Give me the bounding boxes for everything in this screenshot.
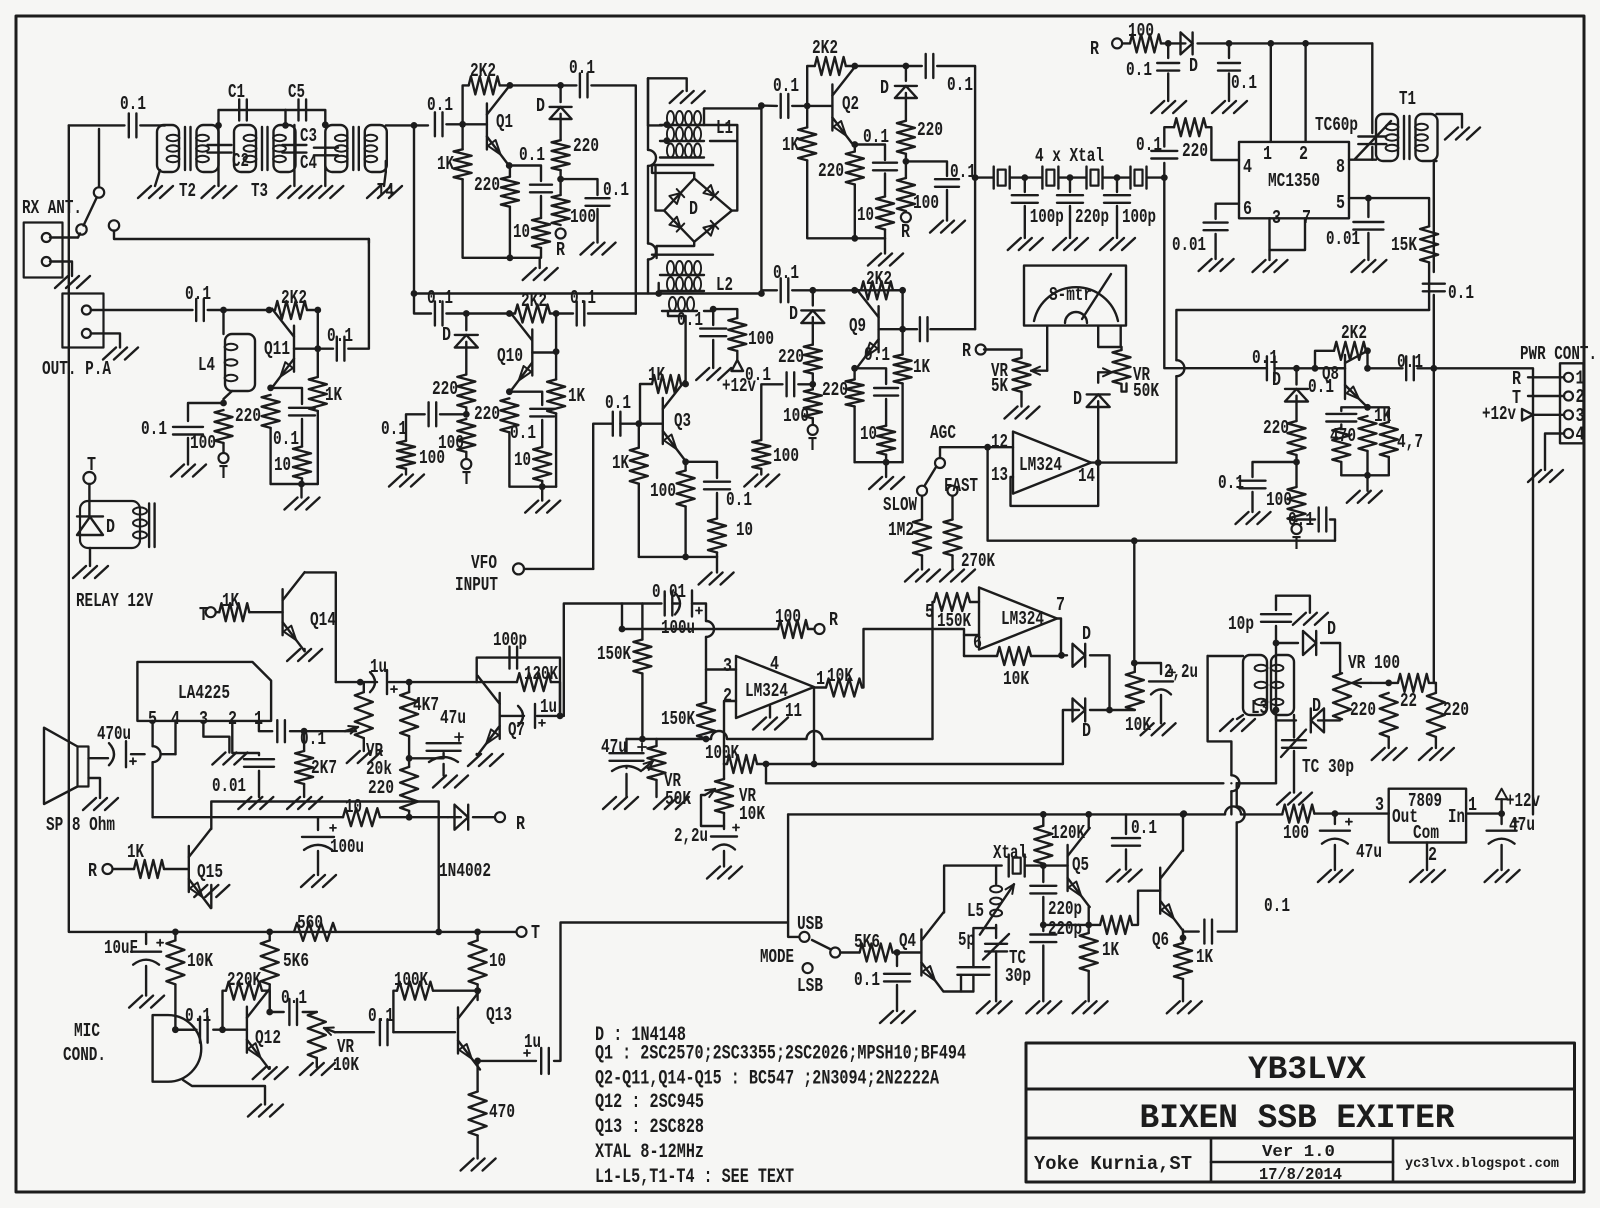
svg-text:1u: 1u <box>524 1031 541 1053</box>
svg-text:0.1: 0.1 <box>1231 72 1257 94</box>
svg-text:D: D <box>789 303 798 325</box>
svg-text:C2: C2 <box>232 150 249 172</box>
svg-text:Q12 : 2SC945: Q12 : 2SC945 <box>595 1091 704 1114</box>
svg-text:2K2: 2K2 <box>470 60 496 82</box>
svg-text:Q13 : 2SC828: Q13 : 2SC828 <box>595 1116 704 1139</box>
svg-text:Q2: Q2 <box>842 93 859 115</box>
svg-text:220: 220 <box>818 160 844 182</box>
svg-text:2K2: 2K2 <box>281 287 307 309</box>
svg-text:USB: USB <box>797 913 823 935</box>
svg-text:XTAL 8-12MHz: XTAL 8-12MHz <box>595 1141 704 1164</box>
svg-text:0.1: 0.1 <box>726 489 752 511</box>
svg-text:10: 10 <box>345 796 362 818</box>
svg-text:S-mtr: S-mtr <box>1049 284 1092 306</box>
svg-text:yc3lvx.blogspot.com: yc3lvx.blogspot.com <box>1405 1156 1559 1172</box>
svg-text:0.1: 0.1 <box>1131 817 1157 839</box>
svg-text:0.1: 0.1 <box>950 161 976 183</box>
svg-text:10: 10 <box>857 204 874 226</box>
svg-text:100: 100 <box>773 445 799 467</box>
svg-text:220: 220 <box>474 174 500 196</box>
svg-text:D: D <box>1082 720 1091 742</box>
svg-text:D: D <box>536 95 545 117</box>
svg-text:1K: 1K <box>1374 405 1391 427</box>
svg-text:1K: 1K <box>568 385 585 407</box>
svg-text:T3: T3 <box>251 180 268 202</box>
svg-text:47u: 47u <box>601 736 627 758</box>
svg-text:LM324: LM324 <box>1019 454 1062 476</box>
svg-text:0.1: 0.1 <box>185 1005 211 1027</box>
svg-text:5K6: 5K6 <box>283 950 309 972</box>
svg-text:100: 100 <box>650 480 676 502</box>
svg-text:0.1: 0.1 <box>141 418 167 440</box>
svg-text:220: 220 <box>822 379 848 401</box>
svg-text:D: D <box>1082 623 1091 645</box>
svg-text:0.1: 0.1 <box>368 1005 394 1027</box>
svg-text:1M2: 1M2 <box>888 519 914 541</box>
svg-text:10K: 10K <box>1125 714 1151 736</box>
svg-text:L3: L3 <box>1251 697 1268 719</box>
svg-text:4,7: 4,7 <box>1397 431 1423 453</box>
svg-text:7: 7 <box>1302 207 1311 229</box>
svg-text:2,2u: 2,2u <box>1164 661 1198 683</box>
svg-text:0.1: 0.1 <box>773 262 799 284</box>
svg-text:220: 220 <box>474 403 500 425</box>
svg-text:150K: 150K <box>597 643 631 665</box>
svg-text:5K6: 5K6 <box>854 931 880 953</box>
svg-text:100: 100 <box>783 405 809 427</box>
svg-text:100: 100 <box>775 606 801 628</box>
svg-text:10K: 10K <box>739 803 765 825</box>
svg-text:50K: 50K <box>1133 380 1159 402</box>
svg-text:1: 1 <box>816 668 825 690</box>
svg-text:MODE: MODE <box>760 946 794 968</box>
svg-text:0.1: 0.1 <box>327 325 353 347</box>
svg-text:L2: L2 <box>716 274 733 296</box>
svg-text:Q10: Q10 <box>497 345 523 367</box>
svg-text:4: 4 <box>770 653 779 675</box>
svg-text:220: 220 <box>368 777 394 799</box>
svg-text:220: 220 <box>235 405 261 427</box>
svg-text:D: D <box>689 198 698 220</box>
svg-text:10K: 10K <box>827 665 853 687</box>
svg-text:100p: 100p <box>1030 206 1064 228</box>
svg-text:1N4002: 1N4002 <box>439 860 491 882</box>
svg-text:T4: T4 <box>377 180 394 202</box>
svg-text:COND.: COND. <box>63 1044 106 1066</box>
svg-text:220p: 220p <box>1048 898 1082 920</box>
svg-text:220: 220 <box>1443 699 1469 721</box>
svg-text:1u: 1u <box>540 696 557 718</box>
svg-text:100: 100 <box>190 432 216 454</box>
svg-text:BIXEN SSB EXITER: BIXEN SSB EXITER <box>1140 1100 1456 1138</box>
svg-text:Q14: Q14 <box>310 609 336 631</box>
svg-text:0.1: 0.1 <box>300 728 326 750</box>
svg-text:0.1: 0.1 <box>569 57 595 79</box>
svg-text:100: 100 <box>419 447 445 469</box>
svg-text:0.1: 0.1 <box>1264 895 1290 917</box>
svg-text:100: 100 <box>748 328 774 350</box>
svg-text:2K2: 2K2 <box>812 37 838 59</box>
svg-text:0.1: 0.1 <box>603 179 629 201</box>
svg-text:Q9: Q9 <box>849 315 866 337</box>
svg-text:14: 14 <box>1078 465 1095 487</box>
svg-text:100u: 100u <box>330 836 364 858</box>
svg-text:10: 10 <box>514 449 531 471</box>
svg-text:0.1: 0.1 <box>1288 509 1314 531</box>
svg-text:L5: L5 <box>967 900 984 922</box>
svg-text:3: 3 <box>1272 207 1281 229</box>
svg-text:0.1: 0.1 <box>1308 376 1334 398</box>
svg-text:2: 2 <box>1428 844 1437 866</box>
svg-text:100: 100 <box>913 192 939 214</box>
svg-text:0.1: 0.1 <box>185 283 211 305</box>
svg-text:T: T <box>808 434 817 456</box>
svg-text:1K: 1K <box>127 841 144 863</box>
svg-text:0.1: 0.1 <box>519 144 545 166</box>
svg-text:15K: 15K <box>1391 234 1417 256</box>
svg-text:0.1: 0.1 <box>570 287 596 309</box>
svg-text:6: 6 <box>1243 198 1252 220</box>
svg-text:10: 10 <box>274 454 291 476</box>
svg-text:AGC: AGC <box>930 422 956 444</box>
svg-text:0.1: 0.1 <box>281 987 307 1009</box>
svg-text:10K: 10K <box>1003 668 1029 690</box>
svg-text:R: R <box>829 609 838 631</box>
svg-text:TC 30p: TC 30p <box>1302 756 1354 778</box>
svg-text:4K7: 4K7 <box>413 694 439 716</box>
svg-text:Yoke Kurnia,ST: Yoke Kurnia,ST <box>1034 1153 1192 1175</box>
svg-text:220: 220 <box>1263 417 1289 439</box>
svg-text:0.1: 0.1 <box>864 344 890 366</box>
svg-text:D: D <box>106 516 115 538</box>
svg-text:470: 470 <box>1330 425 1356 447</box>
svg-text:+12v: +12v <box>1506 790 1540 812</box>
svg-text:2,2u: 2,2u <box>674 825 708 847</box>
svg-text:L1: L1 <box>716 117 733 139</box>
svg-text:1: 1 <box>254 708 263 730</box>
svg-text:Q11: Q11 <box>264 338 290 360</box>
svg-text:R: R <box>556 239 565 261</box>
svg-text:10uF: 10uF <box>104 937 138 959</box>
svg-text:10: 10 <box>513 221 530 243</box>
svg-text:5: 5 <box>1336 192 1345 214</box>
svg-text:D: D <box>1327 618 1336 640</box>
svg-text:1K: 1K <box>325 384 342 406</box>
svg-text:C1: C1 <box>228 81 245 103</box>
svg-text:R: R <box>516 813 525 835</box>
svg-text:Q5: Q5 <box>1072 854 1089 876</box>
svg-text:L4: L4 <box>198 354 215 376</box>
svg-text:47u: 47u <box>1356 841 1382 863</box>
svg-text:100: 100 <box>1283 822 1309 844</box>
svg-text:T: T <box>462 468 471 490</box>
svg-text:0.1: 0.1 <box>773 75 799 97</box>
svg-text:In: In <box>1448 806 1465 828</box>
svg-text:150K: 150K <box>937 610 971 632</box>
svg-text:0.1: 0.1 <box>1126 59 1152 81</box>
svg-text:0.1: 0.1 <box>427 94 453 116</box>
svg-text:C3: C3 <box>300 125 317 147</box>
svg-text:0.01: 0.01 <box>212 775 246 797</box>
svg-text:LA4225: LA4225 <box>178 682 230 704</box>
svg-text:1: 1 <box>1263 143 1272 165</box>
svg-text:R: R <box>88 860 97 882</box>
svg-text:6: 6 <box>973 632 982 654</box>
svg-text:11: 11 <box>785 700 802 722</box>
svg-text:Com: Com <box>1413 822 1439 844</box>
svg-text:1K: 1K <box>1102 939 1119 961</box>
svg-text:+12v: +12v <box>1482 403 1516 425</box>
svg-text:+12v: +12v <box>722 375 756 397</box>
svg-text:0.1: 0.1 <box>605 392 631 414</box>
svg-text:SLOW: SLOW <box>883 494 917 516</box>
svg-text:50K: 50K <box>665 788 691 810</box>
svg-text:0.1: 0.1 <box>381 418 407 440</box>
svg-text:30p: 30p <box>1005 965 1031 987</box>
svg-text:220K: 220K <box>227 969 261 991</box>
svg-text:1K: 1K <box>648 364 665 386</box>
svg-text:Q15: Q15 <box>197 861 223 883</box>
svg-text:0.1: 0.1 <box>120 93 146 115</box>
svg-text:VFO: VFO <box>471 552 497 574</box>
svg-text:100K: 100K <box>394 969 428 991</box>
svg-text:3: 3 <box>723 655 732 677</box>
svg-text:RELAY 12V: RELAY 12V <box>76 590 153 612</box>
svg-text:T: T <box>199 604 208 626</box>
svg-text:4 x Xtal: 4 x Xtal <box>1035 145 1104 167</box>
svg-text:1: 1 <box>1468 794 1477 816</box>
svg-text:Q1 : 2SC2570;2SC3355;2SC2026;M: Q1 : 2SC2570;2SC3355;2SC2026;MPSH10;BF49… <box>595 1043 966 1066</box>
svg-text:C4: C4 <box>300 152 317 174</box>
svg-text:1K: 1K <box>437 153 454 175</box>
svg-text:T: T <box>87 454 96 476</box>
svg-text:L1-L5,T1-T4 : SEE TEXT: L1-L5,T1-T4 : SEE TEXT <box>595 1166 794 1189</box>
svg-text:TC60p: TC60p <box>1315 114 1358 136</box>
svg-text:10K: 10K <box>187 950 213 972</box>
svg-text:47u: 47u <box>440 707 466 729</box>
svg-text:150K: 150K <box>661 708 695 730</box>
svg-text:Q4: Q4 <box>899 930 916 952</box>
svg-text:Q3: Q3 <box>674 410 691 432</box>
svg-text:1u: 1u <box>370 656 387 678</box>
svg-text:D: D <box>442 324 451 346</box>
svg-text:0.1: 0.1 <box>427 287 453 309</box>
svg-text:220: 220 <box>573 135 599 157</box>
svg-text:0.1: 0.1 <box>1218 472 1244 494</box>
svg-text:5p: 5p <box>958 929 975 951</box>
svg-text:0.1: 0.1 <box>1252 347 1278 369</box>
svg-text:12: 12 <box>991 431 1008 453</box>
svg-text:Q6: Q6 <box>1152 929 1169 951</box>
svg-text:0.01: 0.01 <box>1326 228 1360 250</box>
svg-text:120K: 120K <box>524 663 558 685</box>
svg-text:OUT. P.A: OUT. P.A <box>42 358 111 380</box>
svg-text:Q7: Q7 <box>508 719 525 741</box>
svg-text:10: 10 <box>489 950 506 972</box>
svg-text:D: D <box>1073 388 1082 410</box>
svg-text:VR 100: VR 100 <box>1348 652 1400 674</box>
svg-text:Q12: Q12 <box>255 1027 281 1049</box>
svg-text:Q2-Q11,Q14-Q15 : BC547 ;2N3094: Q2-Q11,Q14-Q15 : BC547 ;2N3094;2N2222A <box>595 1068 939 1091</box>
svg-text:T1: T1 <box>1399 88 1416 110</box>
svg-text:470u: 470u <box>97 723 131 745</box>
svg-text:2: 2 <box>228 708 237 730</box>
svg-text:10: 10 <box>860 423 877 445</box>
svg-text:22: 22 <box>1400 690 1417 712</box>
svg-text:T: T <box>219 462 228 484</box>
svg-text:100u: 100u <box>661 617 695 639</box>
svg-text:8: 8 <box>1336 156 1345 178</box>
svg-text:17/8/2014: 17/8/2014 <box>1259 1166 1342 1185</box>
svg-text:INPUT: INPUT <box>455 574 498 596</box>
svg-text:LM324: LM324 <box>745 680 788 702</box>
svg-text:120K: 120K <box>1051 822 1085 844</box>
svg-text:1K: 1K <box>913 356 930 378</box>
svg-text:5: 5 <box>925 601 934 623</box>
svg-text:Xtal: Xtal <box>993 842 1027 864</box>
svg-text:0.01: 0.01 <box>652 581 686 603</box>
svg-text:3: 3 <box>1375 794 1384 816</box>
svg-text:0.1: 0.1 <box>273 428 299 450</box>
svg-text:PWR CONT.: PWR CONT. <box>1520 343 1597 365</box>
svg-text:560: 560 <box>297 912 323 934</box>
svg-text:D: D <box>1312 695 1321 717</box>
svg-text:0.1: 0.1 <box>677 309 703 331</box>
svg-text:LSB: LSB <box>797 975 823 997</box>
svg-text:R: R <box>901 221 910 243</box>
svg-text:0.1: 0.1 <box>854 969 880 991</box>
svg-text:1K: 1K <box>782 134 799 156</box>
svg-text:MC1350: MC1350 <box>1268 170 1320 192</box>
svg-text:5K: 5K <box>991 375 1008 397</box>
svg-text:0.1: 0.1 <box>510 422 536 444</box>
svg-text:4: 4 <box>171 708 180 730</box>
svg-text:100p: 100p <box>1122 206 1156 228</box>
svg-text:D: D <box>880 77 889 99</box>
svg-text:470: 470 <box>489 1101 515 1123</box>
svg-text:0.01: 0.01 <box>1172 234 1206 256</box>
svg-text:100K: 100K <box>705 742 739 764</box>
svg-text:RX ANT.: RX ANT. <box>22 197 82 219</box>
svg-text:Q13: Q13 <box>486 1004 512 1026</box>
svg-text:100: 100 <box>570 206 596 228</box>
svg-text:0.1: 0.1 <box>1448 282 1474 304</box>
svg-text:C5: C5 <box>288 81 305 103</box>
svg-text:10p: 10p <box>1228 613 1254 635</box>
svg-text:T: T <box>531 922 540 944</box>
svg-text:10K: 10K <box>333 1054 359 1076</box>
svg-text:4: 4 <box>1576 424 1585 446</box>
svg-text:1K: 1K <box>612 452 629 474</box>
svg-text:47u: 47u <box>1509 814 1535 836</box>
svg-text:R: R <box>962 340 971 362</box>
svg-text:Ver 1.0: Ver 1.0 <box>1262 1143 1335 1162</box>
svg-text:LM324: LM324 <box>1001 608 1044 630</box>
svg-text:4: 4 <box>1243 156 1252 178</box>
svg-text:T: T <box>1292 533 1301 555</box>
svg-text:0.1: 0.1 <box>1136 134 1162 156</box>
svg-text:Q1: Q1 <box>496 111 513 133</box>
svg-text:SP 8 Ohm: SP 8 Ohm <box>46 814 115 836</box>
svg-text:1K: 1K <box>1196 946 1213 968</box>
svg-text:2K2: 2K2 <box>1341 322 1367 344</box>
svg-text:0.1: 0.1 <box>863 126 889 148</box>
svg-text:220: 220 <box>917 119 943 141</box>
svg-text:220: 220 <box>778 346 804 368</box>
svg-text:FAST: FAST <box>944 475 978 497</box>
svg-text:3: 3 <box>199 708 208 730</box>
svg-text:2: 2 <box>1299 143 1308 165</box>
svg-text:YB3LVX: YB3LVX <box>1248 1051 1367 1088</box>
svg-text:2K2: 2K2 <box>521 290 547 312</box>
svg-text:10: 10 <box>736 519 753 541</box>
svg-text:13: 13 <box>991 464 1008 486</box>
svg-text:5: 5 <box>148 708 157 730</box>
svg-text:220p: 220p <box>1048 918 1082 940</box>
svg-text:270K: 270K <box>961 550 995 572</box>
svg-text:220: 220 <box>1182 140 1208 162</box>
svg-text:D: D <box>1189 55 1198 77</box>
svg-text:100: 100 <box>1128 20 1154 42</box>
svg-text:220: 220 <box>1350 699 1376 721</box>
svg-text:0.1: 0.1 <box>947 74 973 96</box>
svg-text:D: D <box>1272 369 1281 391</box>
svg-text:2K2: 2K2 <box>866 268 892 290</box>
svg-text:220p: 220p <box>1075 206 1109 228</box>
svg-text:220: 220 <box>432 378 458 400</box>
svg-text:2K7: 2K7 <box>311 757 337 779</box>
svg-text:MIC: MIC <box>74 1020 100 1042</box>
svg-text:R: R <box>1090 38 1099 60</box>
svg-text:100p: 100p <box>493 629 527 651</box>
svg-text:100: 100 <box>1266 489 1292 511</box>
svg-text:T2: T2 <box>179 180 196 202</box>
svg-text:0.1: 0.1 <box>1397 351 1423 373</box>
svg-text:7: 7 <box>1056 594 1065 616</box>
svg-text:1K: 1K <box>222 590 239 612</box>
svg-text:2: 2 <box>723 685 732 707</box>
